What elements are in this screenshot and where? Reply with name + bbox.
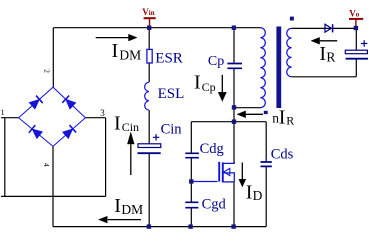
wire drain branch with Cp: [233, 28, 235, 227]
polarity dot primary: [264, 111, 268, 114]
svg-text:2: 2: [43, 69, 52, 73]
wire node 3 stub: [85, 117, 105, 119]
svg-text:3: 3: [100, 108, 105, 118]
wire gate branch (Cdg/Cgd): [190, 122, 192, 227]
arrow I_D: [239, 163, 246, 187]
arrow I_Cp: [218, 75, 226, 102]
arrow I_DM bottom: [99, 216, 142, 223]
svg-text:4: 4: [42, 163, 51, 167]
svg-text:DM: DM: [119, 48, 141, 63]
svg-text:D: D: [253, 188, 263, 203]
svg-text:Vo: Vo: [349, 8, 360, 18]
svg-text:Cds: Cds: [271, 146, 294, 162]
junction bottom rail Cin: [147, 224, 151, 228]
svg-text:R: R: [286, 114, 294, 128]
wire bottom-left horizontal: [1, 195, 106, 197]
diode D1 (node1 to node2): [29, 96, 43, 110]
svg-text:I: I: [194, 72, 201, 94]
svg-text:I: I: [246, 182, 253, 204]
svg-text:Cdg: Cdg: [200, 141, 224, 157]
wire left vertical: [4, 118, 6, 197]
junction bottom rail source: [231, 224, 235, 228]
svg-text:DM: DM: [121, 202, 143, 217]
svg-text:I: I: [279, 106, 286, 128]
junction gate node: [189, 179, 193, 183]
arrow I_DM top: [96, 34, 137, 41]
svg-text:I: I: [112, 40, 119, 62]
capacitor Co output (electrolytic): [345, 40, 368, 58]
svg-text:Cgd: Cgd: [202, 196, 227, 212]
junction primary bottom: [232, 105, 236, 109]
wire bottom rail: [53, 226, 266, 228]
capacitor Cp: [227, 64, 242, 69]
junction bottom rail gate branch: [188, 224, 192, 228]
resistor ESR: [147, 49, 152, 63]
transformer core: [276, 27, 281, 109]
transistor Q1 MOSFET: [191, 162, 234, 183]
svg-text:R: R: [326, 50, 335, 65]
capacitor Cds: [261, 162, 272, 166]
svg-text:Cin: Cin: [122, 120, 139, 134]
wire drain node horizontal (gate branch to Cds branch): [191, 121, 266, 123]
svg-text:Cp: Cp: [208, 54, 224, 69]
junction drain node: [232, 120, 236, 124]
capacitor Cdg: [185, 153, 199, 157]
svg-text:I: I: [114, 113, 121, 135]
svg-text:ESR: ESR: [155, 51, 183, 67]
svg-text:ESL: ESL: [158, 86, 185, 102]
arrow I_R: [311, 37, 337, 44]
wire secondary top: [292, 27, 356, 29]
transformer secondary winding: [287, 28, 292, 76]
diode D2 (node3 to node2): [62, 96, 76, 110]
wire Cds branch: [265, 122, 267, 227]
wire secondary bottom: [292, 76, 357, 78]
Vo terminal: [349, 8, 363, 26]
svg-text:Cp: Cp: [202, 80, 216, 94]
wire top rail from bridge node 2 to transformer primary top: [53, 28, 260, 88]
wire node 1 stub: [1, 117, 19, 119]
svg-text:I: I: [114, 195, 121, 217]
svg-text:Vin: Vin: [142, 7, 154, 17]
wire node 4 vertical: [52, 146, 54, 226]
wire primary bottom to drain node: [234, 107, 261, 109]
svg-text:I: I: [319, 43, 326, 65]
diode D3 (node4 to node1): [29, 125, 43, 139]
junction top rail / Cp branch: [232, 26, 236, 30]
polarity dot secondary: [290, 17, 294, 21]
transformer primary winding: [260, 28, 265, 108]
arrow nI_R: [237, 111, 263, 118]
junction Vin node: [147, 26, 151, 30]
inductor ESL: [145, 82, 149, 110]
wire input-cap branch (ESR/ESL/Cin): [148, 28, 150, 227]
svg-text:Cin: Cin: [161, 121, 183, 137]
Vin terminal: [142, 7, 155, 26]
wire output cap branch: [355, 28, 357, 77]
capacitor Cgd: [185, 202, 198, 207]
diode D4 (node4 to node3): [62, 125, 76, 139]
bridge rectifier diamond: [19, 87, 86, 146]
svg-text:1: 1: [1, 108, 5, 117]
arrow I_Cin: [127, 132, 134, 175]
diode D output: [325, 24, 333, 32]
wire node 3 vertical: [105, 118, 107, 197]
capacitor Cin (electrolytic): [138, 134, 161, 153]
junction Vo node: [354, 26, 358, 30]
